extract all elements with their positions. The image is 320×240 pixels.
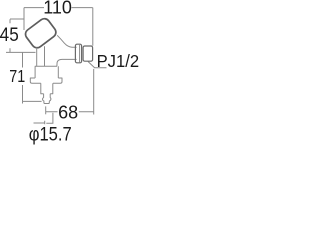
pipe bottom with elbow xyxy=(57,59,77,66)
handle xyxy=(23,17,58,50)
flange inner line xyxy=(79,45,81,63)
extension line right (110) xyxy=(92,8,94,46)
bonnet xyxy=(35,66,59,78)
svg-text:110: 110 xyxy=(43,0,72,18)
pipe top from behind handle xyxy=(57,35,76,47)
svg-text:71: 71 xyxy=(9,68,25,87)
leader PJ1/2 xyxy=(88,62,107,68)
svg-text:45: 45 xyxy=(0,23,19,45)
dim line 45 xyxy=(9,19,11,52)
svg-text:PJ1/2: PJ1/2 xyxy=(97,52,139,71)
dim line 110 xyxy=(24,7,93,9)
witness line 45 top xyxy=(10,18,24,20)
spout tube xyxy=(41,83,53,93)
extension line left (110) xyxy=(23,8,25,30)
phi witness hook right xyxy=(46,113,53,124)
neck right edge xyxy=(44,46,46,66)
tick 68 left xyxy=(45,106,47,114)
neck left edge xyxy=(36,47,38,66)
dim line 71 xyxy=(22,52,24,101)
phi dim seg left xyxy=(34,121,45,124)
dim line 68 xyxy=(46,111,94,113)
svg-text:68: 68 xyxy=(58,103,78,123)
witness line pipe centerline xyxy=(6,51,36,53)
nut xyxy=(83,46,93,61)
flange disc xyxy=(75,44,81,63)
extension line 68 right xyxy=(93,69,95,115)
skirt xyxy=(30,78,62,83)
witness line outlet xyxy=(23,101,42,103)
nipple with barb xyxy=(43,94,51,104)
svg-text:φ15.7: φ15.7 xyxy=(29,123,72,145)
